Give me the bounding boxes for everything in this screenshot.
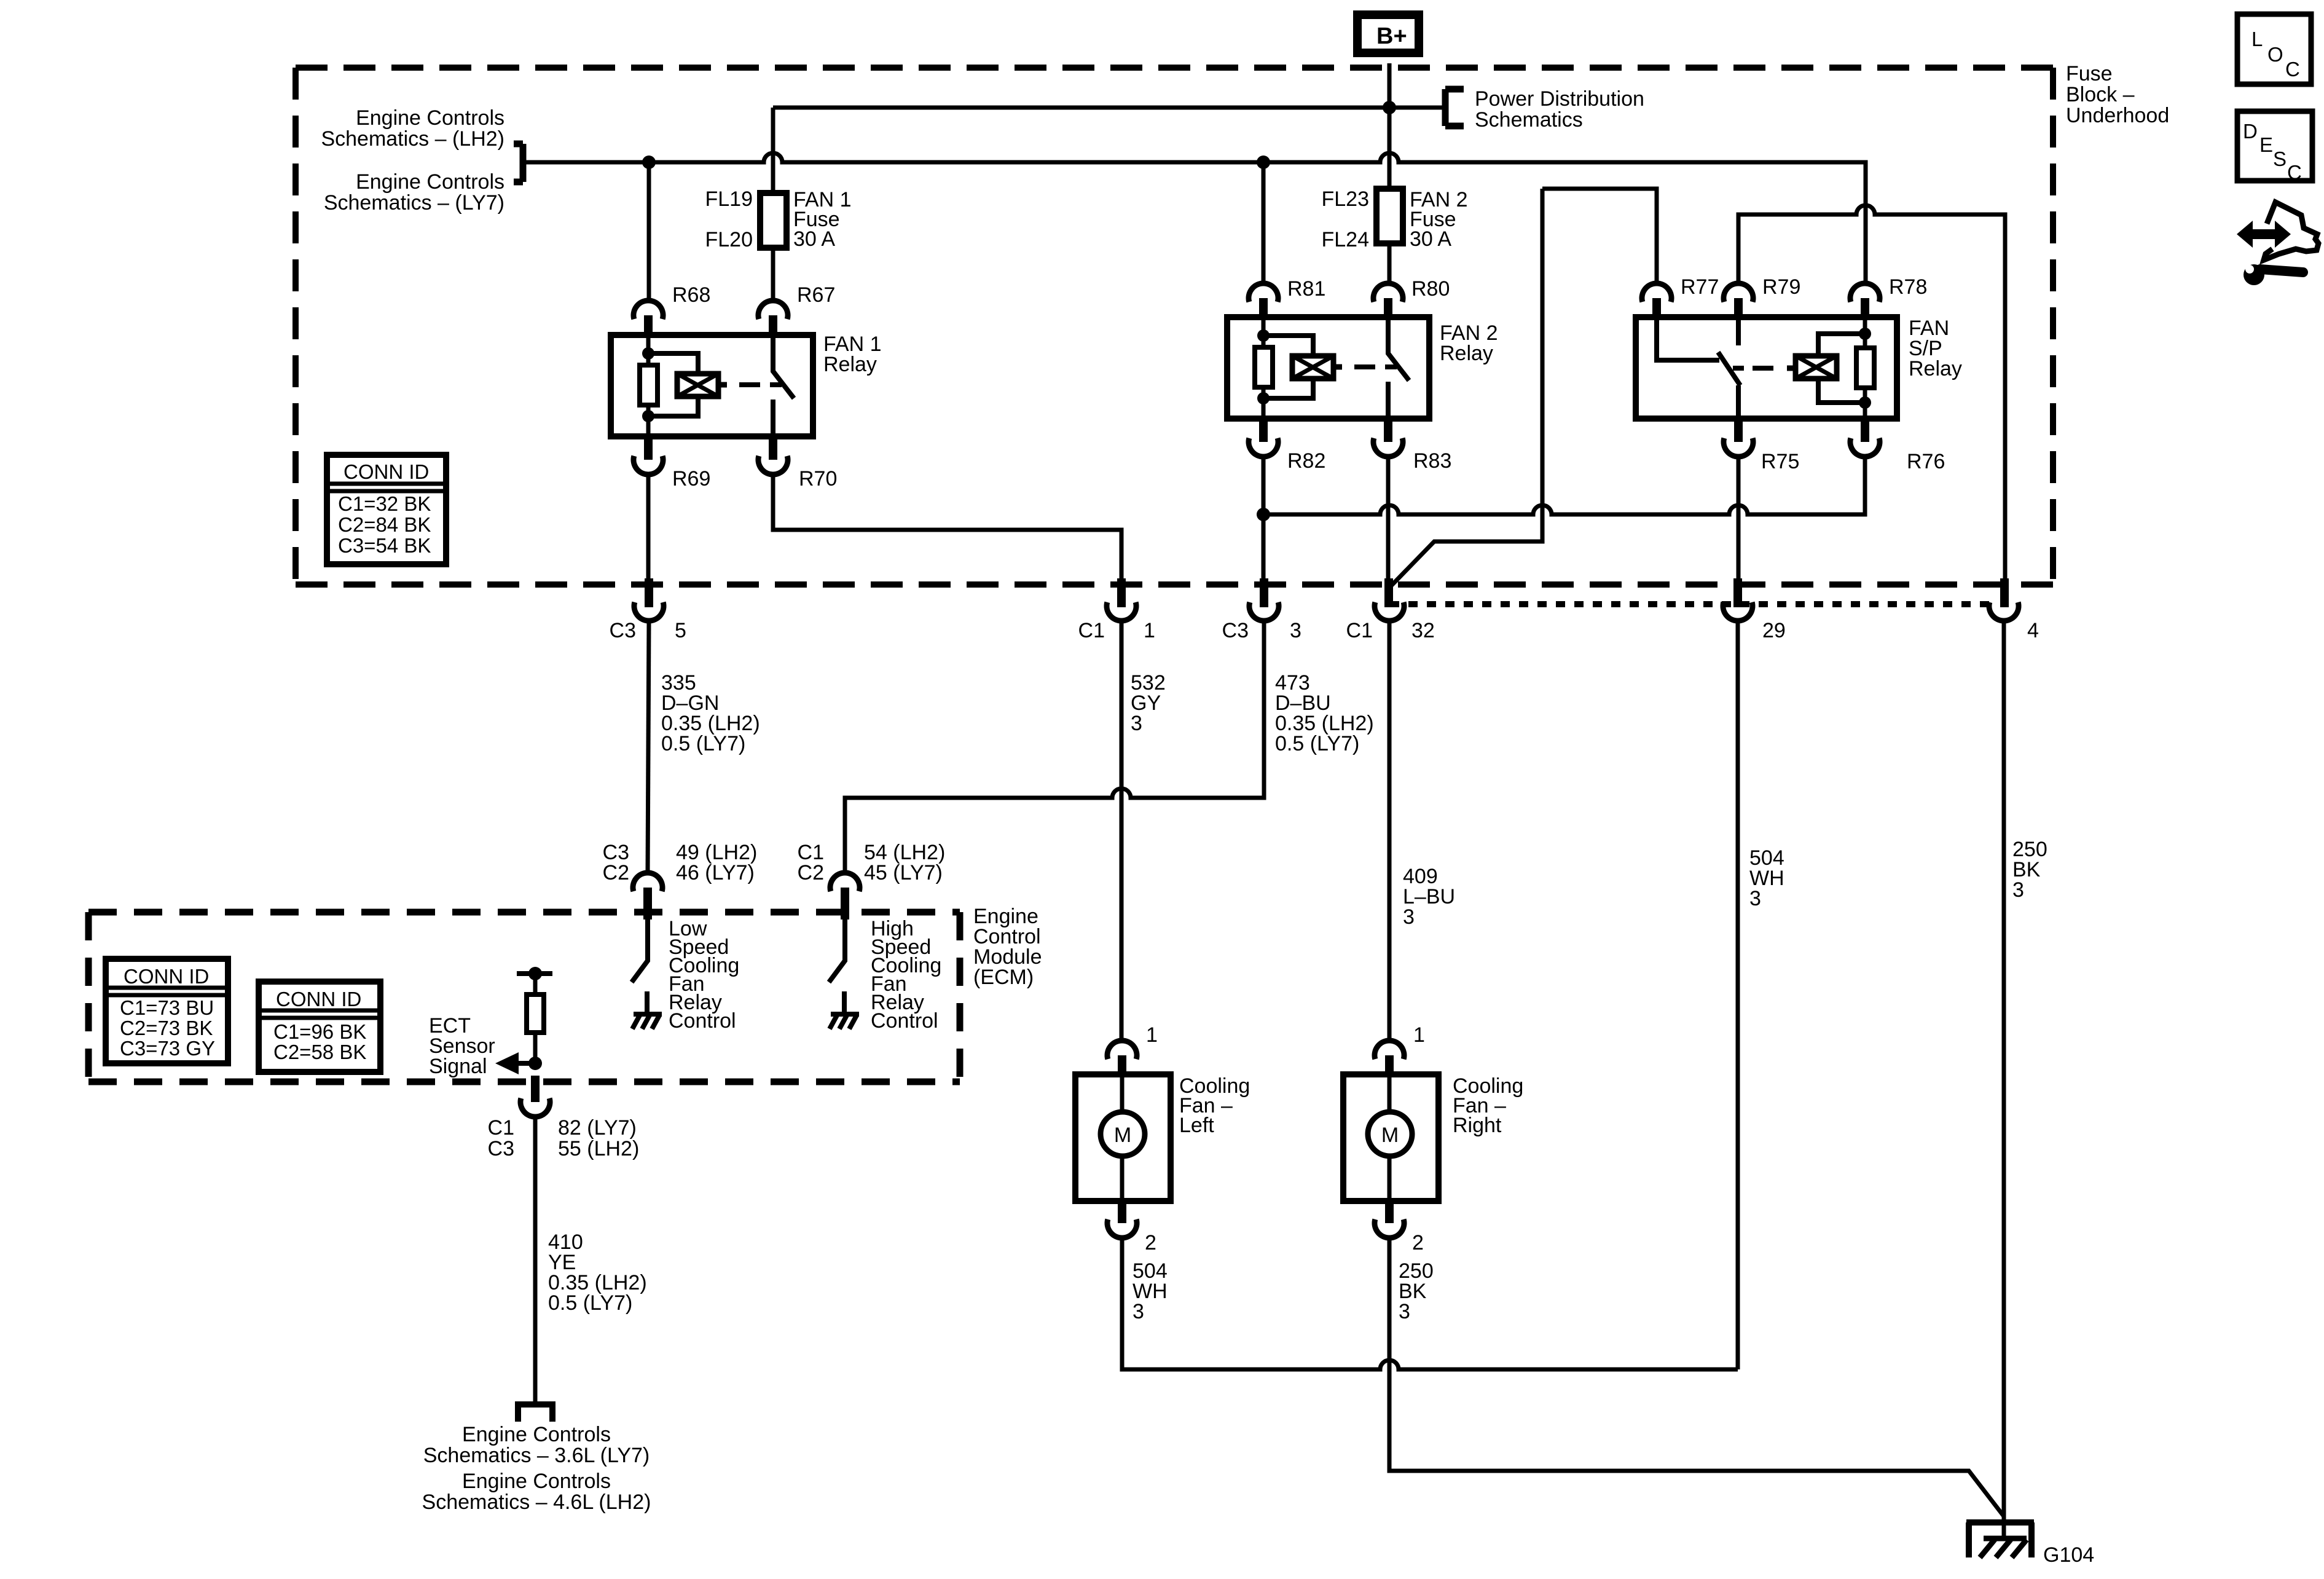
connector ECT wire exits ECM C1/C3 82/55 [531, 1076, 540, 1102]
wire 504 WH drop from pin 29 [1736, 621, 1740, 1369]
relay FAN 1: connector R70 [769, 434, 777, 460]
cooling fan left box [1075, 1074, 1171, 1201]
wire 504 WH ground link left fan to pin 29 drop [1122, 1238, 1738, 1369]
wire coil link line to R76 with hops [1263, 457, 1865, 514]
svg-text:R76: R76 [1907, 450, 1945, 473]
cooling fan left motor M [1120, 1074, 1125, 1201]
ground low speed driver [632, 991, 662, 1029]
ECT sensor signal stub top bar [517, 971, 552, 976]
connector pin 29 at fuse block border [1733, 578, 1742, 607]
icon service manual arrow/wrench [2237, 202, 2318, 285]
wire R69 to fuse block pin C3-5 [646, 474, 651, 578]
svg-text:2: 2 [1145, 1231, 1156, 1254]
wire B+ vertical feed [1388, 63, 1392, 189]
CONN ID table 2 (C1=96 BK / C2=58 BK) [259, 982, 380, 1072]
wire 409 L-BU to right cooling fan [1388, 621, 1392, 1041]
svg-text:2: 2 [1412, 1231, 1424, 1254]
cooling fan right motor M [1388, 1074, 1392, 1201]
svg-text:R82: R82 [1287, 449, 1325, 473]
svg-text:0.5 (LY7): 0.5 (LY7) [1275, 732, 1359, 755]
svg-text:Left: Left [1179, 1114, 1214, 1137]
relay FAN S/P: connector R77 [1642, 283, 1671, 302]
wire 250 BK right fan to G104 [1389, 1238, 2004, 1516]
svg-text:CONN ID: CONN ID [124, 965, 209, 988]
connector pin C3-3 at fuse block border [1260, 578, 1268, 607]
svg-text:R68: R68 [672, 283, 710, 307]
svg-text:Engine Controls: Engine Controls [356, 106, 504, 130]
node R82 to S/P coil line [1257, 508, 1270, 521]
svg-text:Engine Controls: Engine Controls [356, 170, 504, 194]
svg-text:C2: C2 [798, 861, 824, 884]
svg-text:E: E [2259, 133, 2273, 156]
fuse FL23/FL24 FAN 2 Fuse 30 A [1322, 187, 1468, 251]
svg-text:82 (LY7): 82 (LY7) [558, 1116, 637, 1140]
wire R68 drop from bus [647, 162, 651, 301]
wire 250 BK from pin 4 to G104 [2002, 621, 2006, 1538]
svg-text:C3=73 GY: C3=73 GY [120, 1037, 215, 1060]
svg-text:R77: R77 [1681, 275, 1719, 299]
cooling fan right: connector pin 2 [1385, 1199, 1394, 1223]
svg-text:46 (LY7): 46 (LY7) [676, 861, 755, 884]
cooling fan left: connector pin 1 [1107, 1041, 1137, 1059]
svg-text:C1=32 BK: C1=32 BK [338, 492, 431, 515]
wire 410 YE [533, 1117, 538, 1404]
svg-text:C2=58 BK: C2=58 BK [273, 1041, 366, 1063]
connector ECM C3/C2 pin 49/46 (low speed) [633, 873, 662, 891]
svg-text:4: 4 [2027, 619, 2039, 642]
ground G104 [1966, 1522, 2034, 1557]
wire R77 feed line y=307 [1542, 189, 1657, 283]
svg-text:Signal: Signal [429, 1055, 487, 1078]
svg-text:R80: R80 [1411, 277, 1450, 301]
svg-text:Engine Controls: Engine Controls [462, 1423, 611, 1446]
relay FAN 1: connector R69 [644, 434, 653, 460]
svg-text:FL24: FL24 [1322, 228, 1370, 251]
svg-text:30 A: 30 A [793, 227, 835, 251]
relay FAN 1 box [611, 335, 813, 436]
connector pin C1-32 at fuse block border [1384, 578, 1393, 607]
CONN ID table 1 (C1=73 BU / C2=73 BK / C3=73 GY) [106, 959, 228, 1063]
svg-text:G104: G104 [2043, 1543, 2094, 1567]
svg-text:R75: R75 [1761, 450, 1799, 473]
svg-text:C2=73 BK: C2=73 BK [120, 1017, 213, 1039]
wire FL19 fuse top riser [771, 108, 775, 193]
bracket to Power Distribution Schematics [1445, 89, 1464, 126]
wire R75 to fuse block pin 29 [1737, 457, 1741, 578]
svg-text:Relay: Relay [823, 353, 877, 376]
svg-text:R81: R81 [1287, 277, 1325, 301]
node ECT signal junction [528, 1057, 542, 1070]
svg-text:Right: Right [1453, 1114, 1502, 1137]
svg-text:C1: C1 [488, 1116, 514, 1140]
svg-text:Schematics: Schematics [1475, 108, 1583, 132]
svg-text:R69: R69 [672, 467, 710, 490]
B+ terminal box [1357, 15, 1419, 53]
relay FAN 1 actuator dashes [739, 382, 782, 387]
svg-text:1: 1 [1146, 1023, 1158, 1047]
ECT sensor signal arrow [516, 1061, 535, 1066]
ECT divider resistor [533, 974, 538, 1063]
node bus to R68 wire [642, 156, 656, 169]
svg-text:(ECM): (ECM) [973, 966, 1034, 989]
relay FAN S/P switch feed from R77 [1657, 317, 1719, 360]
svg-text:3: 3 [2012, 878, 2024, 902]
wire series link vertical x=2510 [1390, 189, 1542, 587]
svg-text:CONN ID: CONN ID [276, 988, 361, 1010]
svg-text:Fuse: Fuse [2066, 62, 2113, 85]
switch low speed cooling fan relay control [632, 919, 648, 982]
svg-text:C: C [2287, 161, 2302, 184]
svg-text:C1: C1 [1078, 619, 1105, 642]
relay FAN S/P: connector R79 [1724, 283, 1753, 302]
relay FAN 1 internal resistor [646, 335, 651, 436]
svg-text:3: 3 [1131, 712, 1142, 735]
relay FAN 2 coil [1263, 336, 1313, 398]
relay FAN 2: connector R81 [1249, 283, 1278, 302]
svg-text:Control: Control [669, 1009, 736, 1033]
svg-text:Engine Controls: Engine Controls [462, 1470, 611, 1493]
wire R82 to fuse block pin C3-3 [1262, 457, 1266, 578]
icon LOC box [2237, 14, 2311, 84]
svg-text:29: 29 [1762, 619, 1786, 642]
svg-text:3: 3 [1290, 619, 1301, 642]
svg-text:5: 5 [675, 619, 686, 642]
svg-text:L: L [2251, 28, 2263, 50]
wire FL24 to R80 [1388, 243, 1392, 283]
relay FAN S/P switch [1718, 317, 1740, 419]
relay FAN 1 switch [773, 335, 794, 436]
relay FAN S/P: connector R75 [1734, 416, 1743, 442]
svg-text:C3: C3 [610, 619, 636, 642]
connector C1 dotted line of fuse block [1390, 601, 1991, 607]
svg-text:C1=96 BK: C1=96 BK [273, 1020, 366, 1043]
fuse FL19/FL20 FAN 1 Fuse 30 A [705, 187, 852, 251]
svg-text:Underhood: Underhood [2066, 104, 2169, 127]
svg-text:C2=84 BK: C2=84 BK [338, 513, 431, 536]
relay FAN S/P coil [1787, 366, 1796, 371]
svg-text:45 (LY7): 45 (LY7) [864, 861, 943, 884]
cooling fan right: connector pin 1 [1375, 1041, 1404, 1059]
svg-text:O: O [2267, 43, 2283, 66]
svg-text:30 A: 30 A [1410, 227, 1451, 251]
off-page connector to Engine Controls Schematics [518, 1404, 552, 1422]
node bus to R81 wire [1257, 156, 1270, 169]
svg-text:FL19: FL19 [705, 187, 753, 211]
ECM dashed border box [88, 912, 960, 1082]
svg-text:Power Distribution: Power Distribution [1475, 87, 1644, 111]
svg-text:Relay: Relay [1440, 342, 1493, 365]
svg-text:Schematics – (LH2): Schematics – (LH2) [321, 127, 504, 151]
icon DESC box [2237, 111, 2312, 184]
connector pin C3-5 at fuse block border [645, 578, 653, 607]
cooling fan left: connector pin 2 [1118, 1199, 1126, 1223]
svg-text:C3=54 BK: C3=54 BK [338, 534, 431, 557]
wire R81 drop from bus [1262, 162, 1266, 283]
svg-text:S: S [2273, 148, 2287, 170]
relay FAN 2 box [1227, 317, 1429, 419]
svg-text:D: D [2243, 120, 2258, 143]
svg-text:C: C [2285, 58, 2300, 81]
svg-text:C1=73 BU: C1=73 BU [120, 996, 214, 1019]
wire R83 to fuse block pin C1-32 [1386, 457, 1391, 578]
svg-text:C1: C1 [1346, 619, 1373, 642]
svg-text:3: 3 [1399, 1300, 1410, 1323]
svg-text:3: 3 [1403, 905, 1415, 929]
svg-text:1: 1 [1144, 619, 1155, 642]
relay FAN S/P box [1636, 317, 1897, 419]
svg-text:Schematics – 3.6L (LY7): Schematics – 3.6L (LY7) [423, 1444, 650, 1467]
svg-text:FL23: FL23 [1322, 187, 1370, 211]
CONN ID table fuse block (C1=32 BK / C2=84 BK / C3=54 BK) [327, 455, 446, 564]
svg-text:C3: C3 [488, 1137, 514, 1160]
connector pin 4 at fuse block border [2000, 578, 2009, 607]
relay FAN 1: connector R68 [634, 301, 663, 319]
relay FAN 2 switch [1388, 317, 1409, 419]
svg-text:M: M [1114, 1124, 1131, 1147]
svg-text:3: 3 [1133, 1300, 1144, 1323]
relay FAN 2 actuator dashes [1354, 364, 1397, 369]
svg-text:M: M [1381, 1124, 1399, 1147]
relay FAN S/P: connector R78 [1850, 283, 1880, 302]
svg-text:Relay: Relay [1909, 357, 1962, 380]
connector ECM C1/C2 pin 54/45 (high speed) [830, 873, 860, 891]
wire R79 to ground-feed line y=349 with hop over R78 [1738, 205, 2005, 578]
svg-text:R78: R78 [1889, 275, 1927, 299]
wire main coil bus y=264 with hops at FL19 and B+ verticals [524, 153, 1866, 283]
wire 532 GY to left cooling fan [1120, 621, 1124, 1041]
svg-text:32: 32 [1411, 619, 1435, 642]
relay FAN 2: connector R80 [1373, 283, 1403, 302]
relay FAN 1 coil [648, 353, 698, 416]
svg-text:FL20: FL20 [705, 228, 753, 251]
svg-text:R67: R67 [797, 283, 835, 307]
svg-text:C2: C2 [603, 861, 629, 884]
svg-text:B+: B+ [1376, 23, 1407, 49]
bracket from Engine Controls Schematics labels [514, 144, 523, 182]
relay FAN 1: connector R67 [758, 301, 788, 319]
connector pin C1-1 at fuse block border [1117, 578, 1126, 607]
wire 335 D-GN to ECM low speed control [648, 621, 649, 873]
cooling fan right box [1343, 1074, 1439, 1201]
svg-text:Schematics – 4.6L (LH2): Schematics – 4.6L (LH2) [422, 1490, 651, 1514]
relay FAN 2: connector R83 [1384, 416, 1392, 442]
wire power distribution line y=175 [773, 106, 1445, 110]
svg-text:R79: R79 [1762, 275, 1800, 299]
relay FAN S/P actuator dashes [1733, 366, 1773, 371]
svg-text:55 (LH2): 55 (LH2) [558, 1137, 639, 1160]
ground high speed driver [830, 991, 859, 1029]
svg-text:CONN ID: CONN ID [343, 460, 429, 483]
svg-text:Block –: Block – [2066, 83, 2135, 106]
svg-text:C3: C3 [1222, 619, 1249, 642]
svg-text:Control: Control [871, 1009, 938, 1033]
svg-text:0.5 (LY7): 0.5 (LY7) [548, 1291, 632, 1315]
fuse block dashed border: Fuse Block - Underhood [296, 68, 2053, 585]
svg-text:3: 3 [1749, 887, 1761, 910]
svg-text:R83: R83 [1413, 449, 1451, 473]
wire R70 to fuse block pin C1-1 [773, 474, 1121, 578]
relay FAN S/P internal resistor [1863, 317, 1867, 419]
svg-text:Schematics – (LY7): Schematics – (LY7) [324, 191, 504, 215]
relay FAN 2: connector R82 [1259, 416, 1268, 442]
svg-text:0.5 (LY7): 0.5 (LY7) [661, 732, 745, 755]
svg-text:1: 1 [1413, 1023, 1425, 1047]
node junction B+ / power distribution line [1383, 101, 1396, 114]
wire FL20 to R67 [771, 248, 775, 301]
switch high speed cooling fan relay control [829, 919, 845, 982]
relay FAN S/P: connector R76 [1861, 416, 1869, 442]
relay FAN 2 internal resistor [1262, 317, 1266, 419]
wire 473 D-BU to ECM high speed control [845, 621, 1264, 873]
svg-text:R70: R70 [799, 467, 837, 490]
